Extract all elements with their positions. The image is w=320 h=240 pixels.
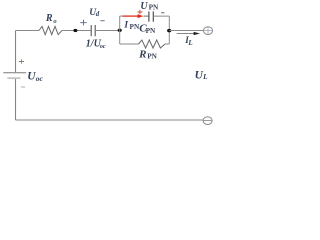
plus sign of U_PN (red) bbox=[137, 10, 142, 14]
svg-text:oc: oc bbox=[100, 43, 106, 50]
minus sign of U_d bbox=[100, 20, 104, 22]
wire stub to C_PN bbox=[144, 15, 149, 17]
terminal plus circle bbox=[204, 27, 213, 35]
battery plus sign bbox=[19, 59, 24, 64]
wire bottom branch right bbox=[165, 43, 169, 45]
wire left vertical bottom half bbox=[15, 79, 17, 120]
svg-text:o: o bbox=[53, 18, 57, 25]
svg-text:PN: PN bbox=[147, 51, 157, 60]
svg-text:d: d bbox=[96, 11, 100, 18]
capacitor U_d left plate bbox=[90, 25, 92, 36]
resistor R_PN bbox=[139, 40, 166, 48]
battery minus sign bbox=[21, 86, 25, 88]
wire resistor to capacitor U_d bbox=[62, 30, 91, 32]
minus sign of U_PN bbox=[161, 12, 164, 14]
minus inside terminal bbox=[203, 120, 211, 122]
battery top plate long bbox=[3, 72, 26, 74]
svg-text:I: I bbox=[123, 21, 128, 31]
wire I_PN red bbox=[123, 15, 139, 17]
svg-text:U: U bbox=[140, 1, 148, 12]
capacitor C_PN left plate bbox=[148, 11, 150, 21]
riser right of parallel group bbox=[168, 16, 170, 44]
battery bottom plate short thick light bbox=[7, 77, 20, 79]
svg-text:PN: PN bbox=[149, 3, 159, 12]
capacitor C_PN right plate bbox=[152, 11, 154, 21]
bottom wire bbox=[16, 119, 204, 121]
wire top segment corner to resistor bbox=[16, 30, 40, 32]
capacitor U_d right plate bbox=[94, 25, 96, 36]
svg-text:L: L bbox=[187, 39, 192, 47]
riser left of parallel group bbox=[119, 16, 121, 44]
arrow I_L shaft bbox=[177, 33, 194, 35]
wire U_d to node N1 bbox=[95, 30, 120, 32]
svg-text:R: R bbox=[138, 49, 146, 61]
svg-text:oc: oc bbox=[36, 74, 44, 83]
plus inside terminal bbox=[204, 27, 212, 34]
svg-text:PN: PN bbox=[146, 26, 156, 35]
plus sign of U_d bbox=[80, 20, 86, 26]
wire output to plus terminal bbox=[169, 30, 203, 32]
node N2 dot bbox=[167, 29, 171, 32]
wire left vertical top half bbox=[15, 31, 17, 73]
wire C_PN to right riser bbox=[153, 15, 169, 17]
svg-text:R: R bbox=[45, 13, 53, 24]
resistor R_o bbox=[39, 26, 62, 34]
node dot after R_o bbox=[73, 29, 77, 32]
terminal minus circle bbox=[203, 117, 212, 125]
wire bottom branch left bbox=[120, 43, 139, 45]
node N1 dot bbox=[118, 29, 122, 32]
arrowhead I_PN red bbox=[138, 14, 144, 18]
svg-text:L: L bbox=[202, 72, 208, 81]
arrowhead I_L bbox=[194, 32, 200, 35]
top branch grey stub left bbox=[120, 15, 123, 17]
